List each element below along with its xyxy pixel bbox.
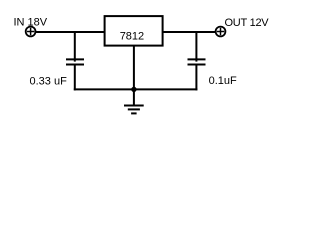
- svg-text:OUT 12V: OUT 12V: [225, 17, 270, 29]
- svg-text:0.33 uF: 0.33 uF: [30, 76, 68, 88]
- svg-text:7812: 7812: [120, 31, 144, 43]
- svg-text:IN 18V: IN 18V: [14, 17, 48, 29]
- svg-text:0.1uF: 0.1uF: [209, 75, 237, 87]
